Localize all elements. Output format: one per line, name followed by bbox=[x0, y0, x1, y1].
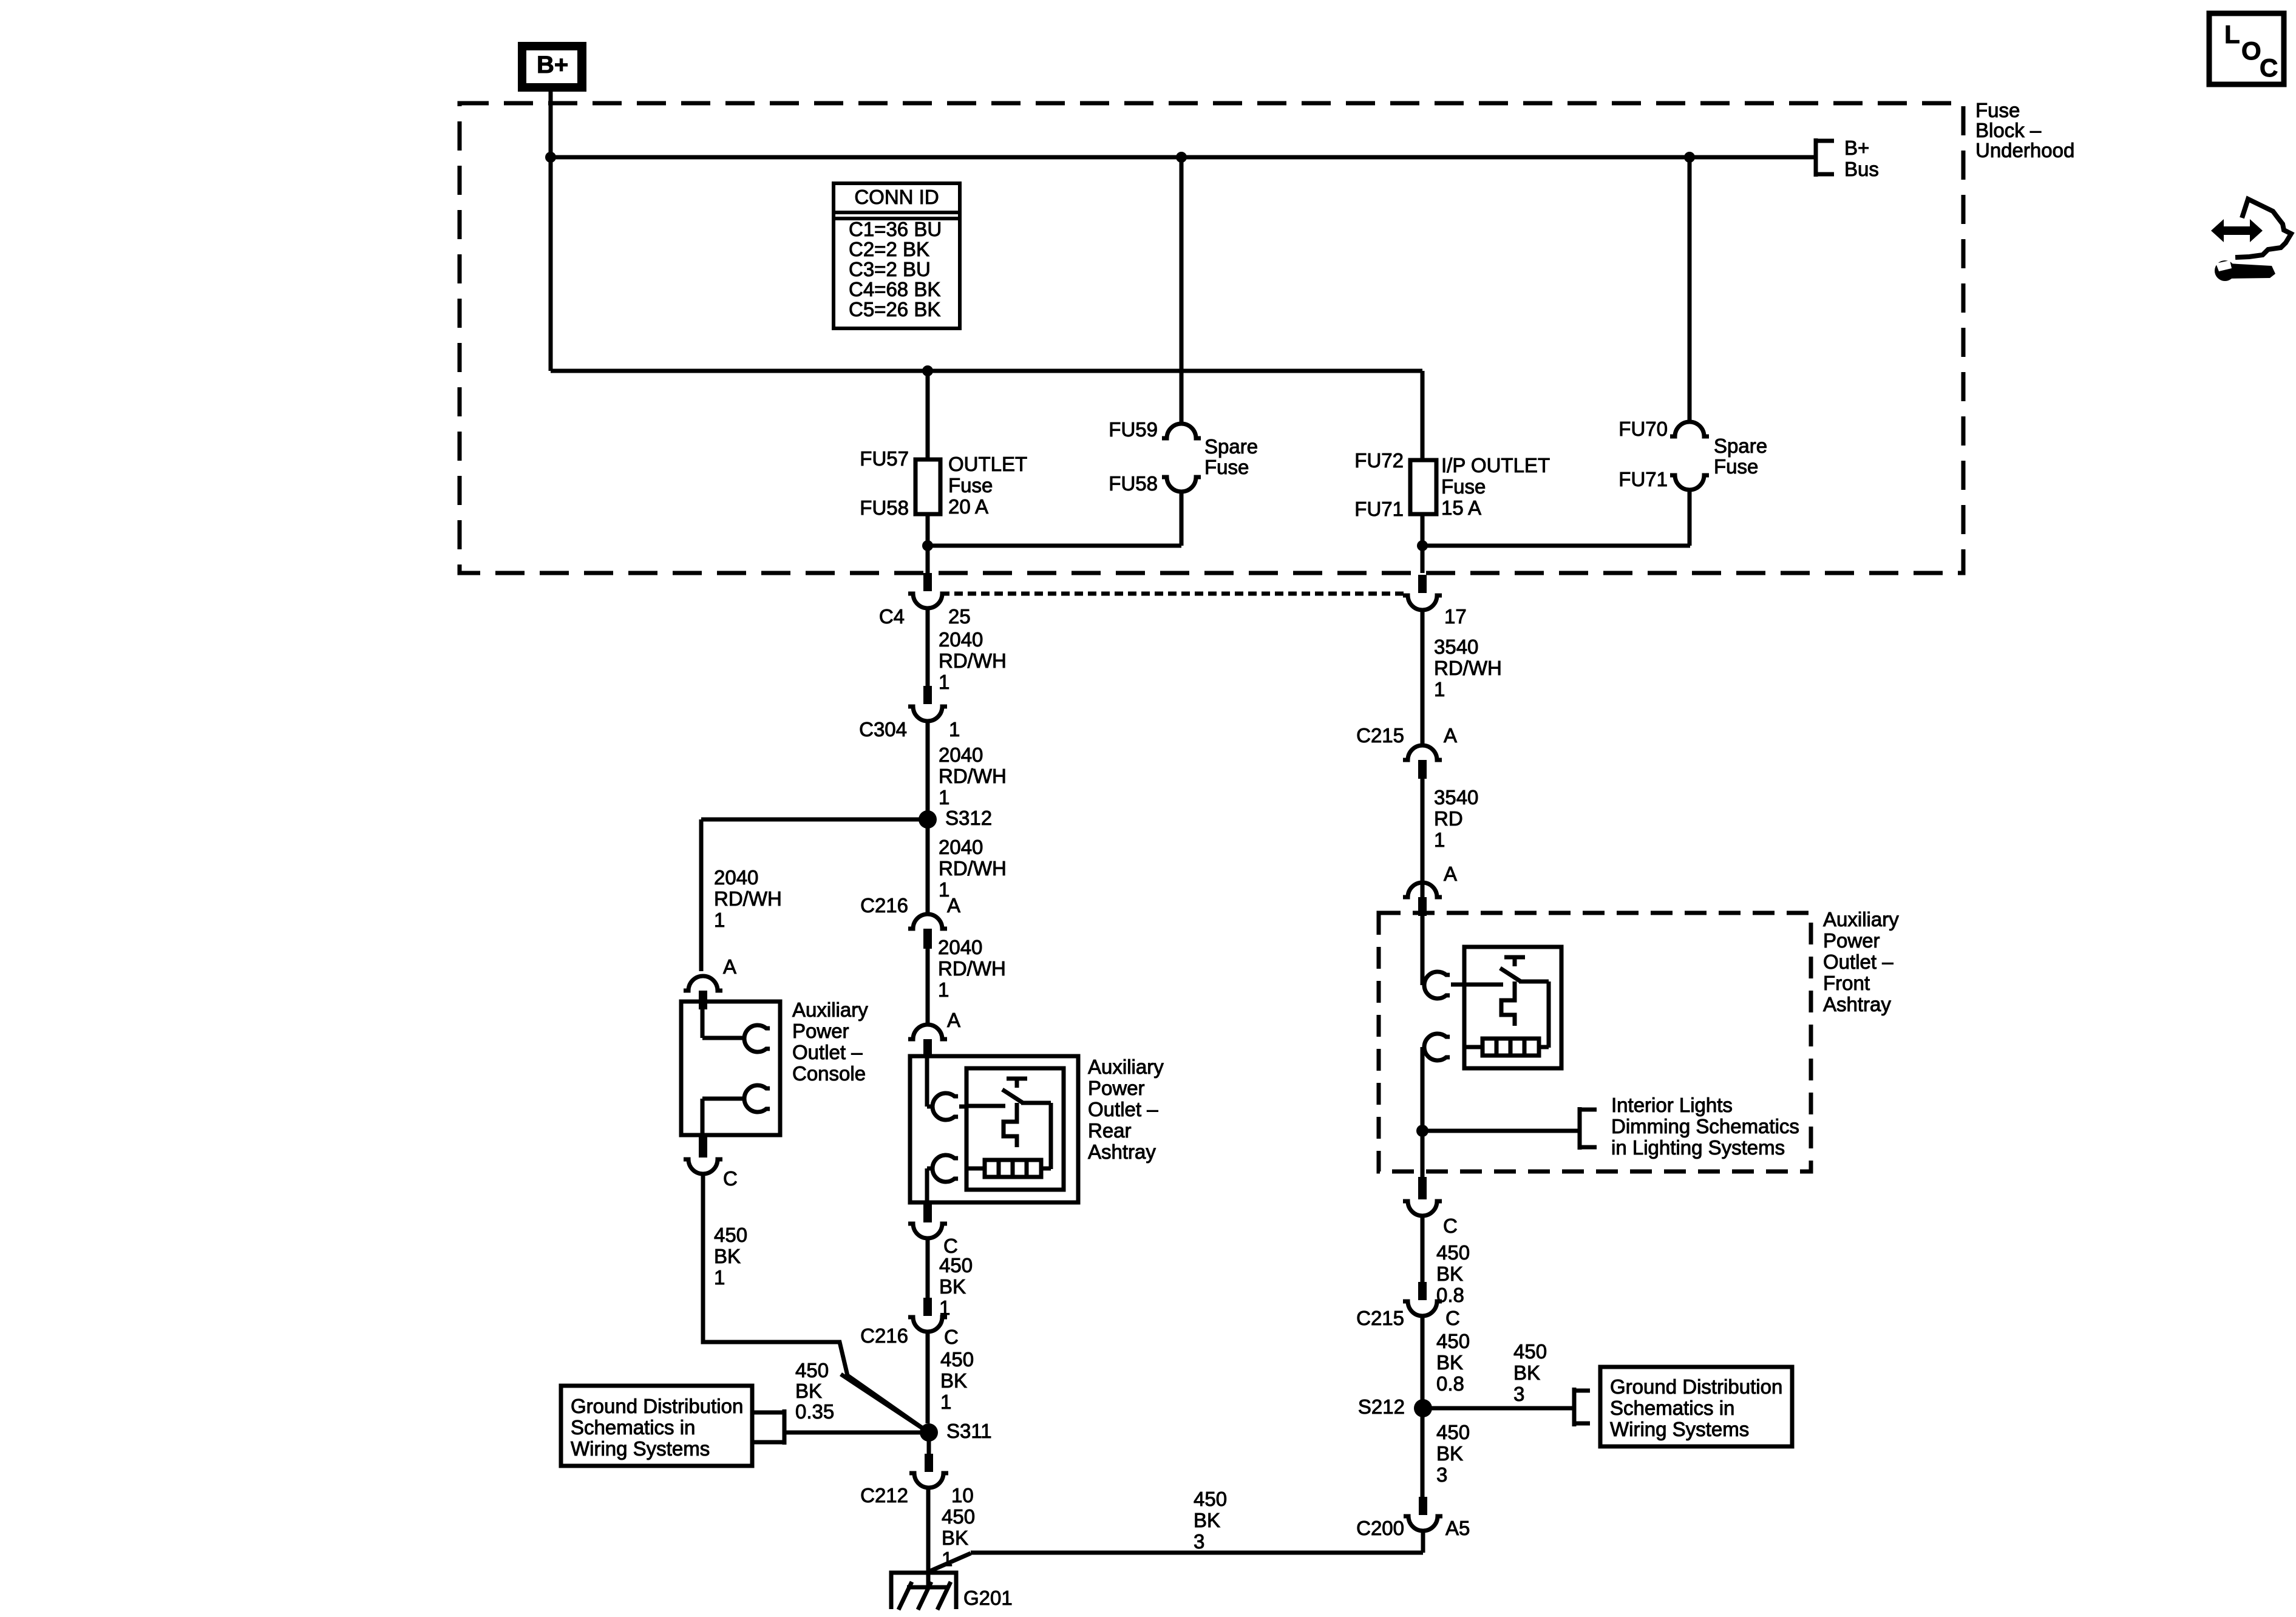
svg-text:C4=68 BK: C4=68 BK bbox=[849, 278, 940, 300]
svg-text:I/P OUTLET: I/P OUTLET bbox=[1441, 454, 1550, 476]
svg-text:2040: 2040 bbox=[939, 744, 983, 766]
svg-text:FU71: FU71 bbox=[1354, 498, 1404, 520]
svg-text:450: 450 bbox=[1436, 1330, 1470, 1352]
svg-text:Console: Console bbox=[792, 1062, 866, 1085]
svg-text:Fuse: Fuse bbox=[1204, 456, 1249, 478]
svg-text:Block –: Block – bbox=[1975, 119, 2042, 141]
svg-text:FU57: FU57 bbox=[860, 447, 909, 470]
svg-text:BK: BK bbox=[1194, 1509, 1220, 1531]
svg-text:Underhood: Underhood bbox=[1975, 139, 2074, 161]
svg-text:C216: C216 bbox=[860, 1324, 908, 1347]
svg-text:15 A: 15 A bbox=[1441, 497, 1481, 519]
svg-text:1: 1 bbox=[939, 671, 949, 693]
svg-text:450: 450 bbox=[714, 1224, 747, 1246]
svg-text:C215: C215 bbox=[1356, 724, 1404, 747]
svg-text:RD/WH: RD/WH bbox=[938, 957, 1006, 980]
svg-text:BK: BK bbox=[714, 1245, 741, 1267]
svg-text:Ground Distribution: Ground Distribution bbox=[571, 1395, 743, 1417]
svg-text:450: 450 bbox=[795, 1359, 829, 1381]
svg-text:FU72: FU72 bbox=[1354, 449, 1404, 472]
svg-text:RD/WH: RD/WH bbox=[939, 765, 1007, 787]
svg-text:450: 450 bbox=[1194, 1488, 1227, 1510]
svg-text:Bus: Bus bbox=[1844, 158, 1879, 180]
svg-text:Ashtray: Ashtray bbox=[1088, 1141, 1156, 1163]
svg-text:3: 3 bbox=[1513, 1383, 1524, 1405]
svg-text:Auxiliary: Auxiliary bbox=[1088, 1056, 1164, 1078]
svg-text:Rear: Rear bbox=[1088, 1119, 1132, 1142]
svg-text:3540: 3540 bbox=[1434, 636, 1478, 658]
svg-text:in Lighting Systems: in Lighting Systems bbox=[1611, 1136, 1785, 1159]
svg-text:Wiring Systems: Wiring Systems bbox=[571, 1437, 710, 1460]
svg-text:RD/WH: RD/WH bbox=[714, 887, 782, 910]
svg-text:25: 25 bbox=[948, 605, 971, 628]
svg-text:Dimming Schematics: Dimming Schematics bbox=[1611, 1115, 1799, 1137]
svg-text:Auxiliary: Auxiliary bbox=[792, 998, 868, 1021]
svg-text:1: 1 bbox=[1434, 829, 1445, 851]
svg-text:BK: BK bbox=[1436, 1263, 1463, 1285]
svg-text:C216: C216 bbox=[860, 894, 908, 917]
svg-text:Interior Lights: Interior Lights bbox=[1611, 1094, 1733, 1116]
svg-text:450: 450 bbox=[1436, 1241, 1470, 1264]
svg-text:Spare: Spare bbox=[1714, 435, 1767, 457]
svg-text:C: C bbox=[1445, 1307, 1460, 1329]
svg-text:Front: Front bbox=[1823, 972, 1870, 994]
svg-text:C1=36 BU: C1=36 BU bbox=[849, 218, 942, 240]
svg-text:450: 450 bbox=[1513, 1340, 1547, 1363]
svg-text:Spare: Spare bbox=[1204, 435, 1258, 458]
svg-text:1: 1 bbox=[939, 786, 949, 808]
svg-text:BK: BK bbox=[940, 1369, 967, 1392]
svg-text:A: A bbox=[947, 894, 960, 917]
svg-text:C3=2 BU: C3=2 BU bbox=[849, 258, 931, 280]
svg-text:C200: C200 bbox=[1356, 1517, 1404, 1539]
svg-text:1: 1 bbox=[940, 1391, 951, 1413]
svg-text:S312: S312 bbox=[945, 807, 992, 829]
svg-text:17: 17 bbox=[1444, 605, 1467, 628]
svg-text:BK: BK bbox=[795, 1380, 822, 1402]
svg-text:450: 450 bbox=[939, 1254, 973, 1276]
svg-text:3: 3 bbox=[1436, 1463, 1447, 1486]
svg-text:A: A bbox=[1444, 724, 1457, 747]
svg-text:Schematics in: Schematics in bbox=[571, 1416, 695, 1439]
svg-text:450: 450 bbox=[942, 1505, 975, 1528]
svg-text:CONN ID: CONN ID bbox=[854, 186, 939, 208]
svg-text:A5: A5 bbox=[1445, 1517, 1470, 1539]
svg-text:10: 10 bbox=[951, 1484, 974, 1507]
svg-text:450: 450 bbox=[940, 1348, 974, 1371]
svg-text:C: C bbox=[1443, 1215, 1458, 1237]
svg-text:Auxiliary: Auxiliary bbox=[1823, 908, 1899, 931]
svg-text:2040: 2040 bbox=[939, 836, 983, 858]
svg-text:S311: S311 bbox=[946, 1420, 992, 1442]
svg-text:3: 3 bbox=[1194, 1530, 1204, 1553]
svg-text:Outlet –: Outlet – bbox=[1823, 951, 1894, 973]
svg-text:BK: BK bbox=[939, 1275, 966, 1298]
svg-text:C: C bbox=[944, 1326, 959, 1348]
svg-text:RD/WH: RD/WH bbox=[939, 649, 1007, 672]
svg-text:Power: Power bbox=[1823, 929, 1880, 952]
svg-text:1: 1 bbox=[1434, 678, 1445, 700]
svg-text:Outlet –: Outlet – bbox=[1088, 1098, 1158, 1120]
svg-text:1: 1 bbox=[714, 1266, 725, 1289]
svg-text:2040: 2040 bbox=[938, 936, 982, 958]
svg-text:Power: Power bbox=[1088, 1077, 1145, 1099]
svg-text:RD/WH: RD/WH bbox=[1434, 657, 1502, 679]
svg-text:Wiring Systems: Wiring Systems bbox=[1610, 1418, 1749, 1440]
svg-text:FU71: FU71 bbox=[1618, 468, 1668, 490]
svg-text:Fuse: Fuse bbox=[1975, 99, 2020, 121]
svg-text:Outlet –: Outlet – bbox=[792, 1041, 863, 1063]
svg-text:Fuse: Fuse bbox=[1714, 455, 1758, 478]
svg-text:O: O bbox=[2241, 36, 2261, 65]
svg-text:RD/WH: RD/WH bbox=[939, 857, 1007, 880]
svg-text:C5=26 BK: C5=26 BK bbox=[849, 298, 940, 320]
svg-text:BK: BK bbox=[1436, 1351, 1463, 1374]
svg-text:A: A bbox=[1444, 863, 1457, 885]
svg-text:FU58: FU58 bbox=[1109, 472, 1158, 495]
svg-text:B+: B+ bbox=[1844, 137, 1869, 159]
svg-text:C2=2 BK: C2=2 BK bbox=[849, 238, 929, 260]
svg-text:FU70: FU70 bbox=[1618, 418, 1668, 440]
svg-text:0.8: 0.8 bbox=[1436, 1372, 1464, 1395]
svg-text:1: 1 bbox=[949, 718, 960, 741]
svg-text:C212: C212 bbox=[860, 1484, 908, 1507]
svg-text:450: 450 bbox=[1436, 1421, 1470, 1443]
svg-text:L: L bbox=[2224, 20, 2240, 49]
svg-text:FU59: FU59 bbox=[1109, 418, 1158, 441]
svg-text:B+: B+ bbox=[537, 52, 568, 78]
svg-text:C: C bbox=[723, 1167, 738, 1190]
svg-text:C: C bbox=[2260, 53, 2278, 82]
svg-text:20 A: 20 A bbox=[948, 495, 988, 518]
svg-text:C4: C4 bbox=[879, 605, 905, 628]
svg-text:1: 1 bbox=[714, 909, 725, 931]
svg-text:A: A bbox=[947, 1009, 960, 1031]
svg-text:OUTLET: OUTLET bbox=[948, 453, 1027, 475]
svg-text:3540: 3540 bbox=[1434, 786, 1478, 808]
svg-text:Schematics in: Schematics in bbox=[1610, 1397, 1734, 1419]
svg-text:RD: RD bbox=[1434, 807, 1463, 830]
svg-text:BK: BK bbox=[1513, 1361, 1540, 1384]
svg-text:BK: BK bbox=[942, 1527, 968, 1549]
svg-text:Power: Power bbox=[792, 1020, 849, 1042]
svg-text:Fuse: Fuse bbox=[1441, 475, 1486, 498]
svg-text:A: A bbox=[723, 955, 736, 978]
svg-text:C215: C215 bbox=[1356, 1307, 1404, 1329]
svg-text:Fuse: Fuse bbox=[948, 474, 993, 497]
svg-text:Ashtray: Ashtray bbox=[1823, 993, 1891, 1015]
svg-text:Ground Distribution: Ground Distribution bbox=[1610, 1375, 1782, 1398]
svg-text:1: 1 bbox=[938, 978, 949, 1001]
svg-text:2040: 2040 bbox=[714, 866, 758, 889]
svg-text:S212: S212 bbox=[1358, 1395, 1405, 1418]
svg-text:0.35: 0.35 bbox=[795, 1400, 834, 1423]
svg-text:BK: BK bbox=[1436, 1442, 1463, 1465]
svg-text:FU58: FU58 bbox=[860, 497, 909, 519]
svg-text:C304: C304 bbox=[859, 718, 907, 741]
svg-text:2040: 2040 bbox=[939, 628, 983, 651]
svg-text:G201: G201 bbox=[963, 1587, 1013, 1609]
